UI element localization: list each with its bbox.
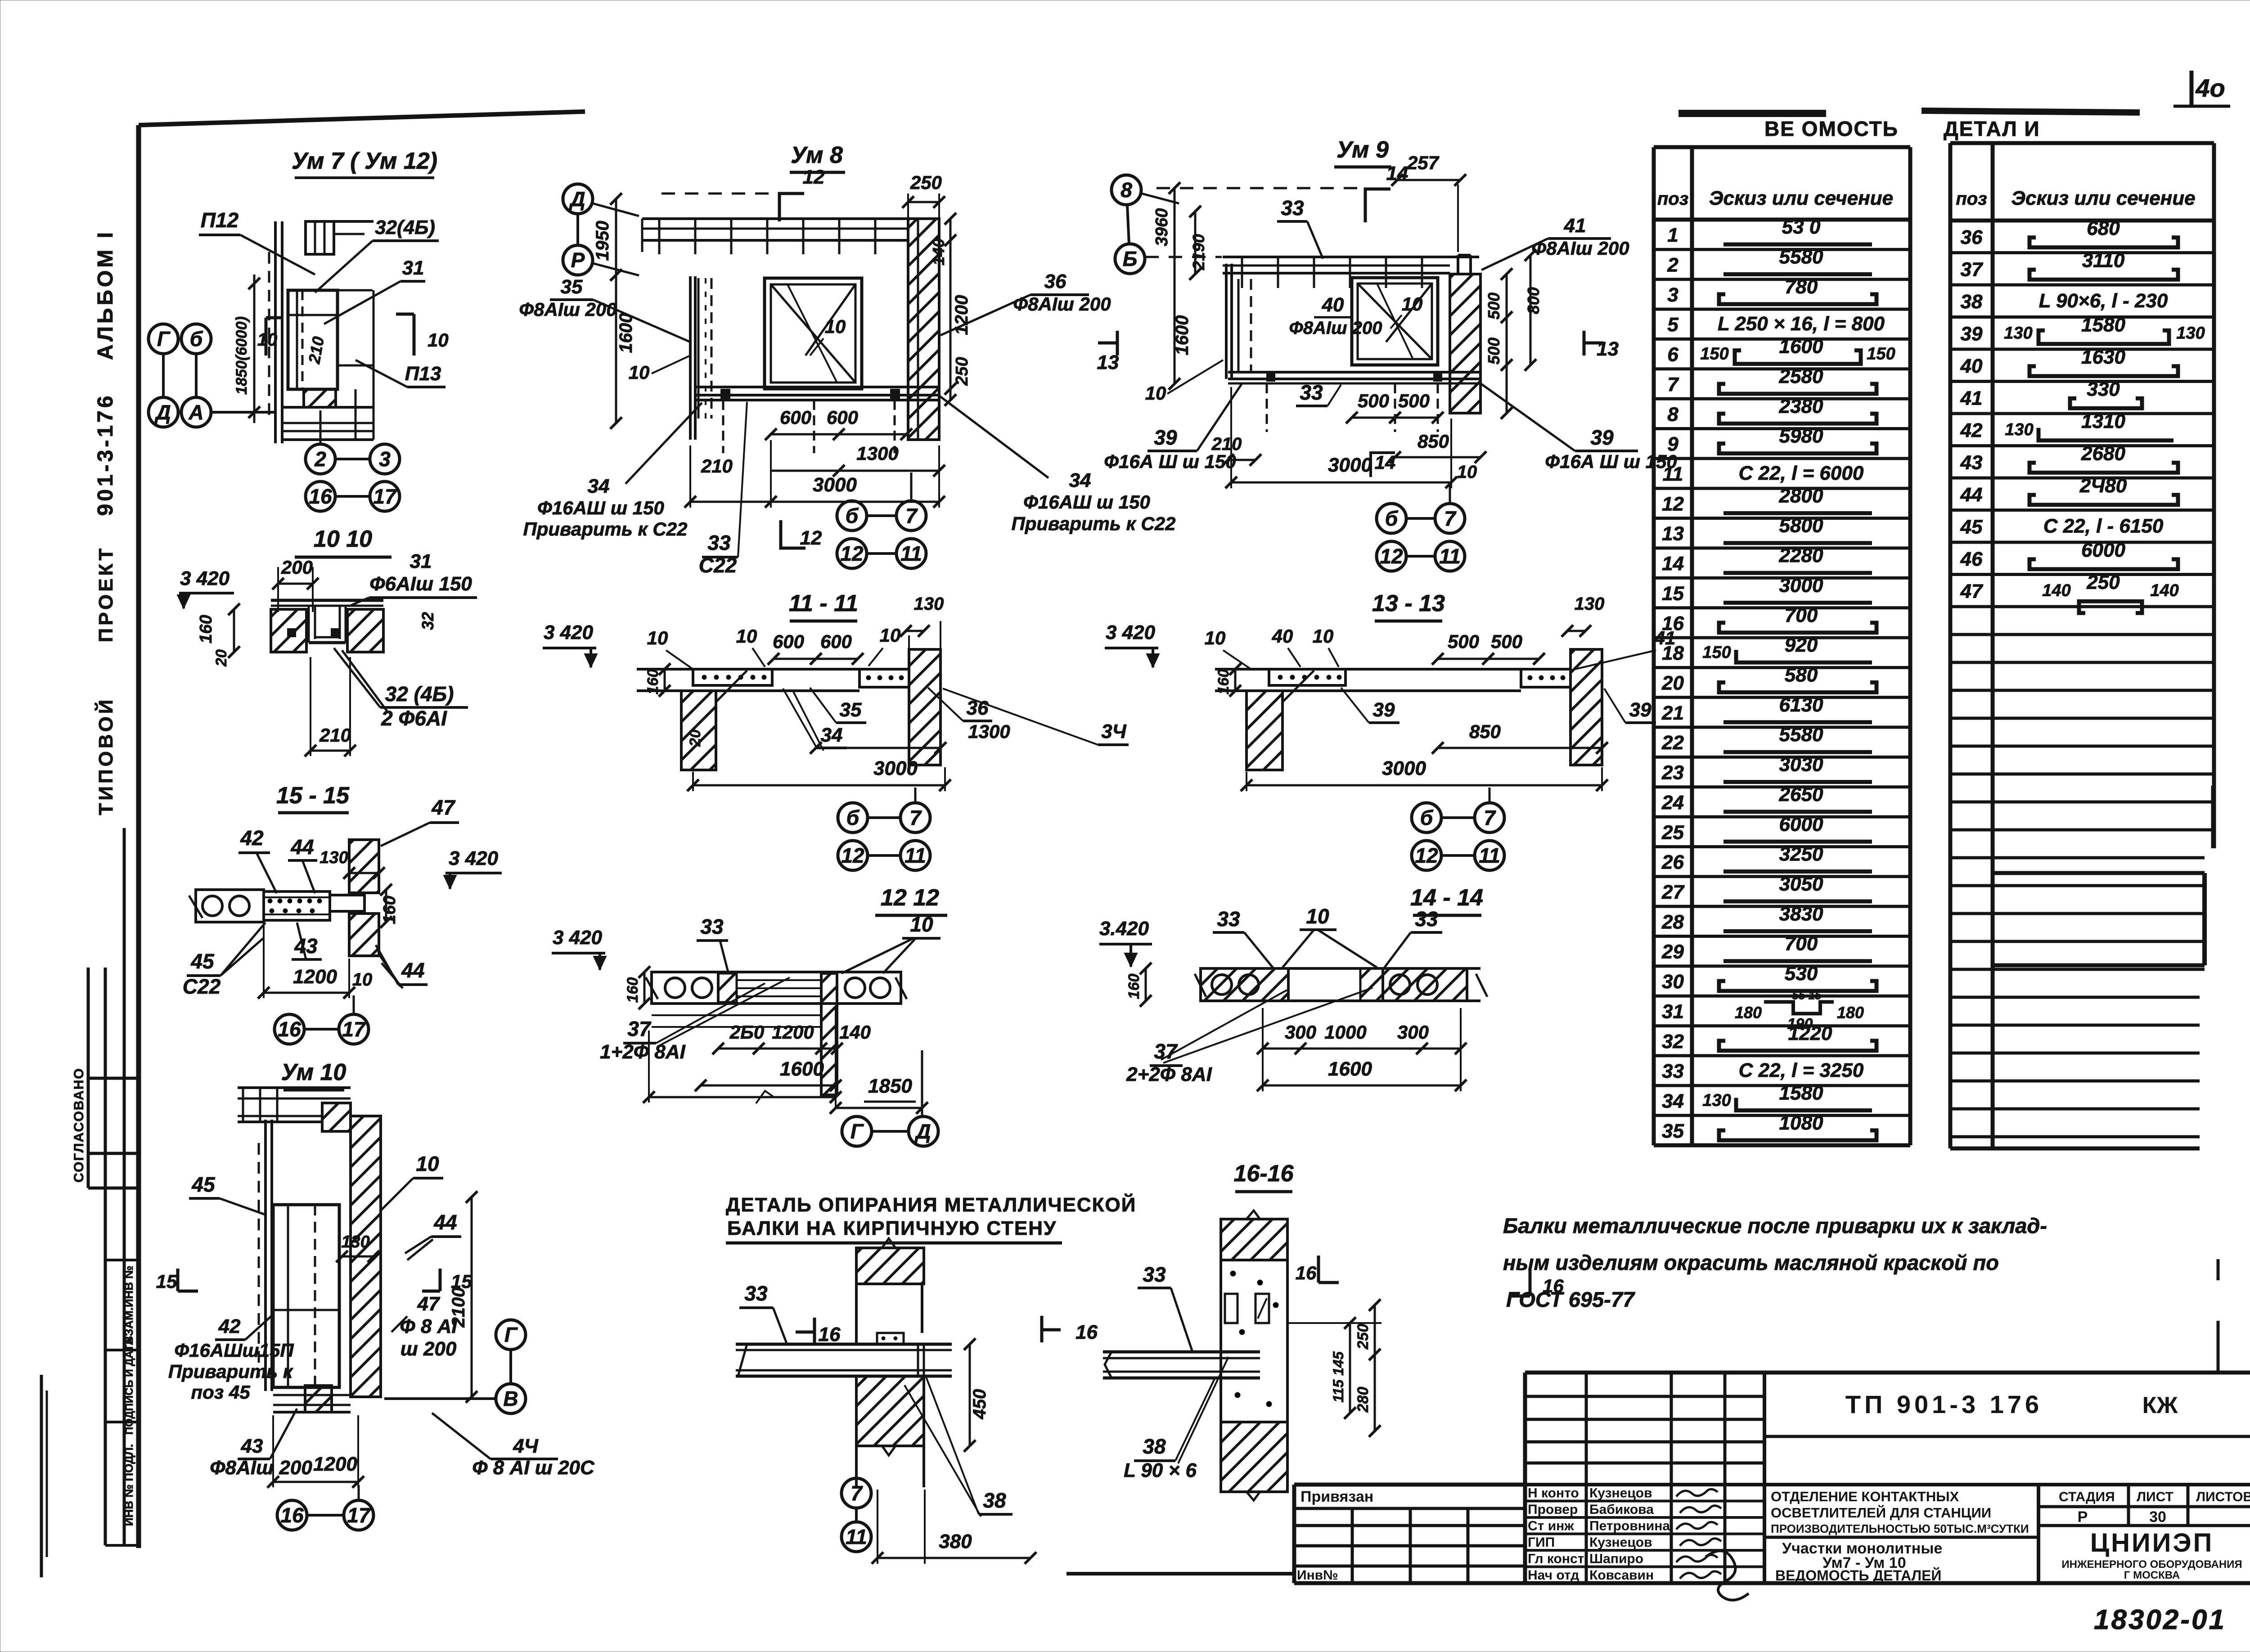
svg-text:500: 500 [1485, 293, 1503, 320]
left table row pos 26 [1654, 875, 1910, 878]
svg-text:С 22, l = 3250: С 22, l = 3250 [1739, 1059, 1864, 1081]
10-10 left concrete block [271, 609, 306, 652]
name row ГИП [1525, 1549, 1764, 1552]
svg-text:920: 920 [1785, 634, 1818, 656]
right table row pos 36 [1950, 251, 2214, 254]
right table lower box artifact [2202, 873, 2207, 965]
svg-text:22: 22 [1661, 732, 1684, 754]
svg-text:580: 580 [1785, 664, 1818, 686]
svg-text:44: 44 [401, 959, 424, 982]
dashed reference line to flag 14 [1156, 187, 1363, 189]
svg-text:700: 700 [1785, 604, 1818, 626]
svg-text:9: 9 [1667, 433, 1678, 455]
svg-text:38: 38 [1143, 1435, 1166, 1458]
svg-text:600: 600 [820, 631, 852, 652]
svg-text:41: 41 [1564, 215, 1586, 237]
middle monolith lines [737, 979, 821, 981]
svg-text:250: 250 [1354, 1324, 1372, 1350]
svg-text:4о: 4о [2195, 74, 2225, 102]
dim 160 rotated [1145, 968, 1147, 1001]
svg-text:11: 11 [900, 542, 922, 565]
svg-text:40: 40 [1272, 626, 1293, 647]
svg-text:130: 130 [2005, 420, 2033, 439]
svg-text:33: 33 [1143, 1263, 1166, 1286]
left table row pos 25 [1654, 845, 1910, 848]
section marks 13 [1116, 331, 1119, 356]
svg-text:С 22, l = 6000: С 22, l = 6000 [1739, 462, 1864, 484]
svg-text:20: 20 [687, 729, 704, 747]
svg-text:Ф16А Ш ш 150: Ф16А Ш ш 150 [1545, 451, 1677, 472]
svg-text:12 12: 12 12 [881, 885, 939, 911]
svg-text:32(4Б): 32(4Б) [375, 216, 435, 239]
svg-text:ЦНИИЭП: ЦНИИЭП [2090, 1528, 2214, 1557]
svg-text:Ф8АIш 200: Ф8АIш 200 [1289, 318, 1382, 338]
channel with rebar dots right [1521, 669, 1570, 687]
svg-text:600: 600 [827, 407, 858, 428]
svg-text:1+2Ф 8АI: 1+2Ф 8АI [600, 1041, 685, 1063]
svg-text:Нач отд: Нач отд [1528, 1568, 1579, 1583]
svg-text:Петровнина: Петровнина [1589, 1519, 1670, 1534]
detail: steel beam [736, 1343, 952, 1346]
svg-text:850: 850 [1469, 721, 1501, 742]
svg-text:43: 43 [241, 1435, 263, 1457]
svg-text:Г МОСКВА: Г МОСКВА [2124, 1569, 2180, 1581]
svg-text:16: 16 [1662, 612, 1684, 635]
svg-text:Провер: Провер [1528, 1502, 1578, 1517]
page number 40 [2190, 71, 2194, 106]
svg-text:10: 10 [1457, 462, 1477, 482]
svg-text:160: 160 [644, 669, 661, 695]
svg-text:30: 30 [2149, 1508, 2166, 1526]
left table row pos 18 [1654, 666, 1910, 669]
reference circles 7 11 stacked [841, 1478, 871, 1508]
svg-text:2: 2 [1667, 254, 1678, 276]
project name cell [1764, 1483, 2250, 1486]
svg-text:150: 150 [1700, 345, 1728, 364]
svg-text:11: 11 [904, 844, 926, 867]
axis circles 8 B [1111, 175, 1141, 205]
left table row pos 23 [1654, 785, 1910, 788]
reference circles 6-7 12-11 [1412, 803, 1441, 833]
reference circles 6-7 12-11 [838, 803, 868, 833]
svg-text:КЖ: КЖ [2142, 1392, 2178, 1418]
svg-text:43: 43 [1960, 451, 1983, 473]
Um9 right hatched wall [1450, 274, 1480, 413]
svg-text:7: 7 [1484, 806, 1496, 829]
svg-text:25: 25 [1661, 821, 1684, 843]
svg-text:17: 17 [373, 485, 397, 508]
svg-text:3250: 3250 [1779, 843, 1823, 865]
svg-text:4Ч: 4Ч [513, 1435, 538, 1457]
dim 450 rotated [969, 1344, 971, 1446]
svg-text:Приварить к С22: Приварить к С22 [1012, 513, 1176, 534]
svg-text:1300: 1300 [856, 443, 898, 464]
left table row pos 27 [1654, 905, 1910, 908]
svg-text:32: 32 [418, 612, 437, 630]
svg-text:39: 39 [1373, 699, 1395, 721]
svg-text:16: 16 [819, 1323, 841, 1346]
svg-text:поз: поз [1657, 189, 1688, 209]
svg-text:34: 34 [821, 724, 843, 746]
Um10 inner body [273, 1205, 339, 1387]
Um7 top panel [306, 221, 334, 254]
svg-text:СОГЛАСОВАНО: СОГЛАСОВАНО [72, 1067, 86, 1183]
svg-text:1200: 1200 [313, 1453, 357, 1475]
svg-text:5800: 5800 [1779, 515, 1823, 537]
svg-text:34: 34 [1069, 469, 1091, 491]
right parts table frame [1948, 143, 1953, 1148]
svg-text:3 420: 3 420 [544, 621, 594, 644]
left table row pos 24 [1654, 815, 1910, 819]
svg-text:13: 13 [1097, 351, 1119, 374]
svg-text:3000: 3000 [1328, 454, 1372, 476]
svg-text:1630: 1630 [2081, 346, 2125, 368]
reference circles 2-3, 16-17 [306, 444, 335, 474]
svg-text:10: 10 [427, 329, 449, 351]
Um10 right wall [351, 1116, 381, 1397]
svg-text:45: 45 [190, 950, 215, 973]
left table row pos 30 [1654, 995, 1910, 998]
svg-text:700: 700 [1785, 933, 1818, 955]
svg-text:2800: 2800 [1779, 485, 1823, 507]
sheet right edge [2217, 1259, 2220, 1280]
svg-text:20: 20 [1661, 672, 1684, 694]
Um10 hatched key [322, 1103, 351, 1131]
svg-text:1300: 1300 [968, 721, 1010, 742]
Um10 left formwork verticals [264, 1120, 267, 1391]
svg-text:ОТДЕЛЕНИЕ КОНТАКТНЫХ: ОТДЕЛЕНИЕ КОНТАКТНЫХ [1771, 1489, 1959, 1504]
svg-text:20: 20 [213, 649, 230, 667]
svg-text:Р: Р [2078, 1508, 2088, 1526]
svg-text:Б: Б [1123, 247, 1138, 270]
svg-text:850: 850 [1417, 431, 1449, 452]
svg-text:10: 10 [736, 626, 757, 647]
svg-text:500: 500 [1358, 390, 1389, 411]
svg-text:ВЕДОМОСТЬ ДЕТАЛЕЙ: ВЕДОМОСТЬ ДЕТАЛЕЙ [1775, 1567, 1941, 1584]
16-16 beam from left [1103, 1350, 1260, 1354]
channel with rebar dots left [1269, 669, 1345, 685]
svg-text:11 - 11: 11 - 11 [789, 590, 858, 617]
right table row pos 47 [1950, 605, 2214, 608]
svg-text:500: 500 [1491, 631, 1522, 652]
svg-text:12: 12 [800, 527, 822, 549]
hollow core slab left [652, 972, 718, 1004]
svg-text:300: 300 [1285, 1022, 1316, 1043]
svg-text:600: 600 [773, 631, 804, 652]
svg-text:L 90 × 6: L 90 × 6 [1124, 1459, 1197, 1481]
svg-text:16: 16 [1296, 1262, 1317, 1283]
svg-text:8: 8 [1667, 403, 1678, 425]
dim 1850(6000) vertical [253, 275, 256, 423]
lower margin strip captions [105, 1259, 139, 1261]
svg-text:7: 7 [1667, 374, 1679, 396]
svg-text:Ф16АШ ш 150: Ф16АШ ш 150 [1023, 491, 1150, 513]
detail title underline [726, 1242, 1062, 1245]
svg-text:3110: 3110 [2082, 249, 2125, 271]
left parts table frame [1652, 147, 1656, 1145]
left table row pos 34 [1654, 1114, 1910, 1117]
left table row pos 31 [1654, 1024, 1910, 1027]
binding margin line [123, 828, 126, 1545]
svg-text:130: 130 [914, 594, 944, 614]
svg-text:150: 150 [1702, 643, 1731, 662]
left table row pos 15 [1654, 606, 1910, 609]
svg-text:7: 7 [905, 504, 918, 527]
stage sheet columns [2037, 1485, 2040, 1583]
svg-text:10: 10 [880, 625, 901, 646]
svg-text:780: 780 [1785, 276, 1818, 298]
svg-text:2650: 2650 [1779, 783, 1823, 806]
svg-text:12: 12 [1415, 844, 1438, 867]
14-14 slab band [1201, 967, 1480, 970]
svg-text:1580: 1580 [1779, 1082, 1823, 1104]
svg-text:31: 31 [1662, 1000, 1684, 1022]
svg-text:1310: 1310 [2081, 410, 2125, 432]
svg-text:Ковсавин: Ковсавин [1589, 1568, 1654, 1583]
svg-text:1200: 1200 [293, 966, 337, 988]
dim 160 rotated [1234, 669, 1237, 691]
Um8 right hatched wall [908, 219, 939, 440]
svg-text:160: 160 [197, 615, 216, 643]
svg-text:300: 300 [1397, 1022, 1429, 1043]
svg-text:1950: 1950 [593, 221, 612, 261]
svg-text:П12: П12 [201, 208, 239, 232]
svg-text:10: 10 [1145, 383, 1166, 404]
svg-text:33: 33 [707, 531, 731, 554]
svg-text:Бабикова: Бабикова [1589, 1502, 1654, 1517]
svg-text:3960: 3960 [1152, 208, 1171, 247]
svg-text:13 - 13: 13 - 13 [1372, 590, 1445, 617]
vertical dim 1950 [615, 199, 617, 275]
svg-text:Эскиз или сечение: Эскиз или сечение [1709, 187, 1893, 209]
right vertical dims 500 500 800 [1506, 274, 1508, 413]
svg-text:250: 250 [953, 357, 972, 386]
svg-text:680: 680 [2087, 217, 2120, 239]
svg-text:1: 1 [1667, 224, 1678, 246]
svg-text:2190: 2190 [1189, 234, 1208, 270]
svg-text:10: 10 [910, 913, 933, 936]
svg-text:Привязан: Привязан [1300, 1488, 1373, 1505]
svg-text:47: 47 [431, 796, 456, 819]
name row Провер [1525, 1516, 1764, 1519]
svg-text:2100: 2100 [449, 1287, 468, 1328]
right vertical dims 140 1200 250 [949, 219, 952, 400]
svg-text:45: 45 [191, 1173, 216, 1196]
svg-text:35: 35 [561, 276, 583, 298]
svg-text:3Ч: 3Ч [1101, 720, 1126, 743]
Um10 bottom hatched key [305, 1386, 332, 1412]
hatched key right [1360, 968, 1383, 1001]
svg-text:В: В [503, 1387, 518, 1410]
svg-text:330: 330 [2087, 378, 2120, 400]
sheet frame left border [136, 125, 141, 1548]
svg-text:140: 140 [839, 1022, 871, 1043]
right pier hatched [821, 973, 837, 1095]
Um9 bottom beam [1228, 371, 1480, 374]
left table row pos 14 [1654, 576, 1910, 580]
scan edge mark bottom-left [40, 1375, 43, 1577]
svg-text:33: 33 [1217, 907, 1240, 931]
svg-text:Ст инж: Ст инж [1528, 1519, 1574, 1534]
svg-text:Ф6АIш 150: Ф6АIш 150 [369, 573, 472, 595]
svg-text:130: 130 [319, 848, 348, 867]
svg-text:1000: 1000 [1324, 1022, 1366, 1043]
svg-text:13: 13 [1662, 523, 1684, 545]
svg-text:5980: 5980 [1779, 425, 1823, 447]
16-16 anchor plates [1225, 1294, 1237, 1323]
svg-text:16: 16 [280, 1503, 304, 1527]
15-15 channel into wall [330, 895, 364, 911]
svg-text:Кузнецов: Кузнецов [1589, 1486, 1652, 1501]
svg-text:ПРОЕКТ: ПРОЕКТ [95, 546, 117, 643]
svg-text:Д: Д [568, 187, 585, 211]
svg-text:47: 47 [417, 1293, 441, 1315]
svg-text:Балки металлические после п: Балки металлические после приварки их к … [1503, 1214, 2047, 1238]
svg-text:10: 10 [629, 362, 650, 383]
svg-text:130: 130 [1575, 594, 1605, 614]
svg-text:500: 500 [1448, 631, 1479, 652]
dim 2100 rotated [471, 1197, 473, 1397]
svg-text:1580: 1580 [2081, 314, 2125, 336]
svg-text:280: 280 [1354, 1387, 1372, 1413]
svg-text:31: 31 [410, 550, 432, 572]
svg-text:3 420: 3 420 [553, 927, 603, 949]
svg-text:3 420: 3 420 [1106, 621, 1156, 644]
svg-text:32 (4Б): 32 (4Б) [385, 682, 454, 706]
name row Гл конст [1525, 1566, 1764, 1568]
svg-text:Ф16АШш15П: Ф16АШш15П [174, 1340, 294, 1361]
hollow core slab left hatched [1201, 968, 1288, 1001]
svg-text:L 90×6, l - 230: L 90×6, l - 230 [2039, 290, 2168, 312]
hollow core slab right hatched [1383, 968, 1467, 1001]
hatched key [718, 973, 737, 1002]
svg-text:130: 130 [1702, 1091, 1731, 1110]
svg-text:5580: 5580 [1779, 724, 1823, 746]
svg-text:160: 160 [624, 977, 641, 1003]
svg-text:2380: 2380 [1779, 395, 1823, 417]
svg-text:Гл конст: Гл конст [1528, 1552, 1584, 1566]
svg-text:3000: 3000 [1382, 757, 1426, 779]
svg-text:37: 37 [627, 1017, 652, 1040]
svg-text:1850(6000): 1850(6000) [233, 316, 250, 395]
svg-text:26: 26 [1661, 851, 1684, 873]
svg-text:СТАДИЯ: СТАДИЯ [2059, 1490, 2115, 1504]
left table row pos 28 [1654, 935, 1910, 938]
Um9 opening window [1352, 278, 1438, 365]
hollow core slab right [837, 972, 901, 1004]
svg-text:130: 130 [2176, 324, 2205, 342]
right table row pos 44 [1950, 509, 2214, 512]
Um7 monolith body [288, 290, 337, 389]
svg-text:160: 160 [1215, 669, 1232, 695]
svg-text:12: 12 [803, 166, 825, 188]
left table row pos 11 [1654, 487, 1910, 490]
Um7 bottom slab lines [282, 406, 373, 409]
right table row pos 46 [1950, 573, 2214, 576]
title block name rows grid [1525, 1395, 1764, 1398]
left table row pos 16 [1654, 636, 1910, 639]
16-16 right dims [1349, 1323, 1351, 1413]
svg-text:180: 180 [1837, 1003, 1864, 1022]
svg-text:Ум 10: Ум 10 [281, 1059, 346, 1085]
svg-text:Г: Г [157, 327, 171, 351]
svg-text:1200: 1200 [772, 1022, 814, 1043]
right table row pos 37 [1950, 284, 2214, 287]
svg-text:37: 37 [1154, 1040, 1178, 1063]
svg-text:Г: Г [504, 1323, 518, 1346]
Um8 top formwork band [642, 217, 939, 220]
sheet frame top border [139, 112, 585, 125]
svg-text:31: 31 [402, 257, 424, 279]
svg-text:ВЕ ОМОСТЬ: ВЕ ОМОСТЬ [1764, 117, 1899, 140]
svg-text:35: 35 [840, 699, 862, 721]
axis circles G D [842, 1116, 872, 1146]
detail: lower brick wall [856, 1376, 924, 1446]
right table row pos 42 [1950, 444, 2214, 447]
svg-text:30: 30 [1662, 971, 1684, 993]
svg-text:ПРОИЗВОДИТЕЛЬНОСТЬЮ 50ТЫС.М³СУ: ПРОИЗВОДИТЕЛЬНОСТЬЮ 50ТЫС.М³СУТКИ [1771, 1522, 2029, 1535]
svg-text:10: 10 [352, 970, 373, 990]
svg-text:3 420: 3 420 [449, 847, 499, 869]
svg-text:3.420: 3.420 [1099, 918, 1149, 940]
11-11 slab band [637, 668, 909, 671]
svg-text:Ф16А Ш ш 150: Ф16А Ш ш 150 [1104, 451, 1236, 472]
svg-text:ТИПОВОЙ: ТИПОВОЙ [94, 697, 117, 815]
svg-text:44: 44 [290, 835, 314, 859]
title block outer [1292, 1485, 1296, 1583]
svg-text:16-16: 16-16 [1234, 1161, 1294, 1187]
svg-text:34: 34 [588, 475, 610, 497]
svg-text:28: 28 [1661, 911, 1684, 933]
svg-text:600: 600 [780, 407, 811, 428]
svg-text:43: 43 [294, 934, 318, 958]
svg-text:Н конто: Н конто [1528, 1486, 1579, 1501]
16-16 wall top hatch [1221, 1219, 1287, 1260]
svg-text:130: 130 [341, 1233, 369, 1251]
svg-text:36: 36 [1044, 270, 1066, 293]
svg-text:б: б [846, 504, 859, 527]
svg-text:П13: П13 [405, 363, 441, 385]
left table row pos 12 [1654, 517, 1910, 520]
11-11 left pier [681, 691, 716, 770]
svg-text:150: 150 [1867, 345, 1895, 364]
svg-text:1600: 1600 [1779, 336, 1823, 358]
svg-text:33: 33 [1662, 1060, 1684, 1082]
svg-text:ДЕТАЛ И: ДЕТАЛ И [1944, 117, 2040, 140]
svg-text:33: 33 [1281, 196, 1304, 220]
svg-text:800: 800 [1524, 287, 1543, 314]
svg-text:Эскиз или сечение: Эскиз или сечение [2011, 187, 2195, 209]
svg-text:500: 500 [1398, 390, 1430, 411]
svg-text:2+2Ф 8АI: 2+2Ф 8АI [1126, 1063, 1212, 1085]
svg-text:Г: Г [850, 1120, 864, 1143]
svg-text:б: б [1420, 806, 1434, 829]
svg-text:115 145: 115 145 [1330, 1351, 1346, 1403]
svg-text:Ум 7 ( Ум 12): Ум 7 ( Ум 12) [292, 148, 437, 174]
svg-text:Ум 9: Ум 9 [1336, 137, 1389, 163]
section mark 10 right [413, 314, 416, 356]
weld squares [288, 629, 295, 636]
right table row pos 38 [1950, 315, 2214, 319]
svg-text:7: 7 [1444, 507, 1457, 530]
svg-text:1600: 1600 [780, 1058, 824, 1080]
left table row pos 33 [1654, 1084, 1910, 1087]
right table empty rows [1950, 633, 2213, 636]
svg-text:11: 11 [1479, 844, 1500, 867]
svg-text:17: 17 [347, 1503, 371, 1527]
left table row pos 5 [1654, 338, 1910, 341]
svg-text:44: 44 [1960, 484, 1983, 506]
